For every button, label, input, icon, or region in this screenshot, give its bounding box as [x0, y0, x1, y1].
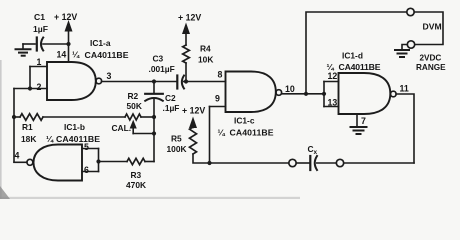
junction pins1-2: [28, 86, 32, 90]
test terminal 2: [336, 159, 343, 166]
pin 1 stub: [30, 66, 47, 68]
C1 value label: [33, 12, 48, 34]
pin 3 label: [107, 71, 112, 81]
svg-text:C3: C3: [153, 54, 164, 64]
svg-text:CA4011BE: CA4011BE: [339, 62, 381, 72]
svg-text:x: x: [314, 149, 318, 156]
pin labels 5,6: [84, 142, 89, 175]
test terminal 1: [289, 159, 296, 166]
pin 6 stub: [82, 171, 99, 173]
junction C2 tap: [152, 79, 156, 83]
pin labels 12,13: [328, 71, 338, 108]
R1 labels: [21, 122, 36, 144]
DVM label: [423, 22, 442, 32]
resistor R4: [183, 45, 190, 63]
svg-text:IC1-b: IC1-b: [64, 122, 85, 132]
svg-text:10: 10: [285, 84, 295, 94]
ground (pin 7): [351, 127, 367, 134]
Cx label: [308, 144, 318, 156]
svg-text:100K: 100K: [167, 144, 187, 154]
output bubble IC1-d: [391, 91, 397, 97]
op-amp label IC1-d: [327, 51, 381, 73]
svg-text:8: 8: [218, 70, 223, 80]
node: pin 14 wire: [68, 44, 70, 62]
op-amp label IC1-b: [46, 122, 100, 144]
capacitor C2 (vertical): [145, 82, 163, 118]
DVM rail up: [306, 12, 407, 94]
output bubble IC1-c: [276, 90, 282, 96]
capacitor C3: [177, 76, 186, 89]
output bubble IC1-b: [27, 159, 33, 165]
junction wiper/vertical: [152, 131, 156, 135]
svg-text:CAL.: CAL.: [112, 123, 132, 133]
svg-text:18K: 18K: [21, 134, 36, 144]
pin 7 label: [361, 116, 366, 126]
R3 labels: [126, 170, 146, 190]
op-amp label IC1-a: [72, 38, 129, 60]
svg-text:R5: R5: [171, 134, 182, 144]
IC1-c labels: [218, 116, 274, 138]
svg-text:50K: 50K: [127, 101, 142, 111]
pin 10 output wire: [282, 93, 324, 95]
svg-text:CA4011BE: CA4011BE: [56, 134, 100, 144]
svg-text:+ 12V: + 12V: [178, 13, 201, 23]
pin 9 label: [215, 94, 220, 104]
svg-text:.1µF: .1µF: [163, 103, 180, 113]
svg-text:12: 12: [328, 71, 338, 81]
op-amp U1 gate IC1-a: [47, 62, 96, 100]
svg-text:IC1-a: IC1-a: [90, 38, 111, 48]
pin 4 label: [15, 151, 20, 161]
op-amp U1 gate IC1-b (mirrored): [34, 145, 83, 181]
R5 labels: [167, 134, 187, 155]
+12V supply arrow (left): [65, 22, 72, 44]
svg-text:10K: 10K: [198, 55, 213, 65]
svg-text:R1: R1: [22, 122, 33, 132]
+12V supply arrow (top middle): [183, 24, 190, 45]
R2 labels: [127, 91, 142, 111]
svg-text:470K: 470K: [126, 180, 146, 190]
R2 wiper arrow (CAL): [130, 121, 154, 134]
left rail wire: [13, 89, 15, 163]
svg-text:RANGE: RANGE: [416, 63, 446, 72]
2VDC RANGE label: [416, 54, 446, 73]
svg-text:9: 9: [215, 94, 220, 104]
wire pin3 output to C3: [102, 81, 176, 83]
pin 2 stub: [30, 88, 47, 90]
pin 11 output wire: [396, 94, 414, 163]
svg-text:+ 12V: + 12V: [54, 12, 77, 22]
junction pin9 / bottom rail: [207, 161, 211, 165]
pin 8 label: [218, 70, 223, 80]
svg-text:13: 13: [328, 98, 338, 108]
pin 13 stub: [324, 106, 339, 108]
pin 12 stub: [324, 81, 339, 83]
pin label 14: [57, 50, 67, 60]
bottom rail to test terminal: [210, 162, 289, 164]
pin 9 wire: [210, 106, 226, 108]
wire to pin 8: [186, 81, 226, 83]
svg-text:DVM: DVM: [423, 22, 442, 32]
svg-text:4: 4: [15, 151, 20, 161]
junction tie/pin10: [322, 92, 326, 96]
op-amp U1 gate IC1-d: [339, 73, 391, 114]
ground (DVM): [395, 50, 409, 57]
op-amp U1 gate IC1-c: [226, 72, 276, 113]
C3 labels: [149, 54, 175, 75]
svg-text:C1: C1: [34, 12, 45, 22]
CAL. label: [112, 123, 132, 133]
DVM terminal top: [407, 8, 414, 15]
output bubble IC1-a: [96, 78, 102, 84]
svg-text:2VDC: 2VDC: [420, 54, 442, 63]
svg-text:1µF: 1µF: [33, 24, 48, 34]
junction pins 5-6 / R3: [96, 159, 100, 163]
svg-text:6: 6: [84, 165, 89, 175]
wire to pin 11: [344, 162, 414, 164]
svg-text:+ 12V: + 12V: [182, 106, 205, 116]
junction R1 / rail: [12, 115, 16, 119]
svg-text:IC1-c: IC1-c: [234, 116, 255, 126]
svg-text:5: 5: [84, 142, 89, 152]
junction R2/vertical: [152, 115, 156, 119]
pin 10 label: [285, 84, 295, 94]
+12V supply arrow (middle, R5): [190, 118, 197, 128]
pin 11 label: [400, 84, 409, 94]
junction rail/pin10: [304, 92, 308, 96]
svg-text:C2: C2: [165, 93, 176, 103]
pin 7 stub: [356, 114, 358, 126]
svg-text:1: 1: [37, 57, 42, 67]
svg-text:14: 14: [57, 50, 67, 60]
potentiometer R2: [125, 114, 141, 120]
junction at C1/+12V/pin14: [66, 42, 70, 46]
R4 labels: [198, 44, 213, 65]
pin 4 output wire: [14, 161, 27, 163]
pin labels 1,2: [37, 57, 42, 92]
capacitor Cx: [310, 156, 317, 170]
wire R1 to R2: [43, 116, 125, 118]
svg-text:7: 7: [361, 116, 366, 126]
svg-text:.001µF: .001µF: [149, 64, 175, 74]
junction R4 / C3 wire: [184, 79, 188, 83]
svg-text:¼: ¼: [46, 134, 54, 144]
svg-text:3: 3: [107, 71, 112, 81]
ground (C1): [16, 44, 31, 56]
resistor R3: [127, 158, 145, 164]
feedback wire to left rail: [14, 88, 30, 90]
svg-text:11: 11: [400, 84, 409, 94]
capacitor C1: [23, 38, 69, 51]
pins 12/13 tie: [323, 82, 325, 107]
resistor R5: [190, 127, 197, 154]
DVM terminal bottom: [407, 41, 414, 48]
svg-text:¼: ¼: [218, 128, 226, 138]
C2 labels: [163, 93, 180, 113]
svg-text:¼: ¼: [327, 62, 335, 72]
wire vertical x154 wiper to R3: [153, 117, 155, 162]
svg-text:R2: R2: [128, 91, 139, 101]
svg-text:CA4011BE: CA4011BE: [85, 50, 129, 60]
svg-text:R4: R4: [200, 44, 211, 54]
tie pins 5-6: [98, 149, 100, 172]
pin 5 stub: [82, 148, 99, 150]
svg-text:IC1-d: IC1-d: [342, 51, 363, 61]
resistor R1: [20, 114, 43, 121]
svg-text:CA4011BE: CA4011BE: [230, 128, 274, 138]
svg-text:¼: ¼: [72, 50, 80, 60]
svg-text:2: 2: [37, 82, 42, 92]
svg-text:R3: R3: [131, 170, 142, 180]
input tie wire: [29, 67, 31, 89]
scan artifacts: [0, 60, 300, 199]
